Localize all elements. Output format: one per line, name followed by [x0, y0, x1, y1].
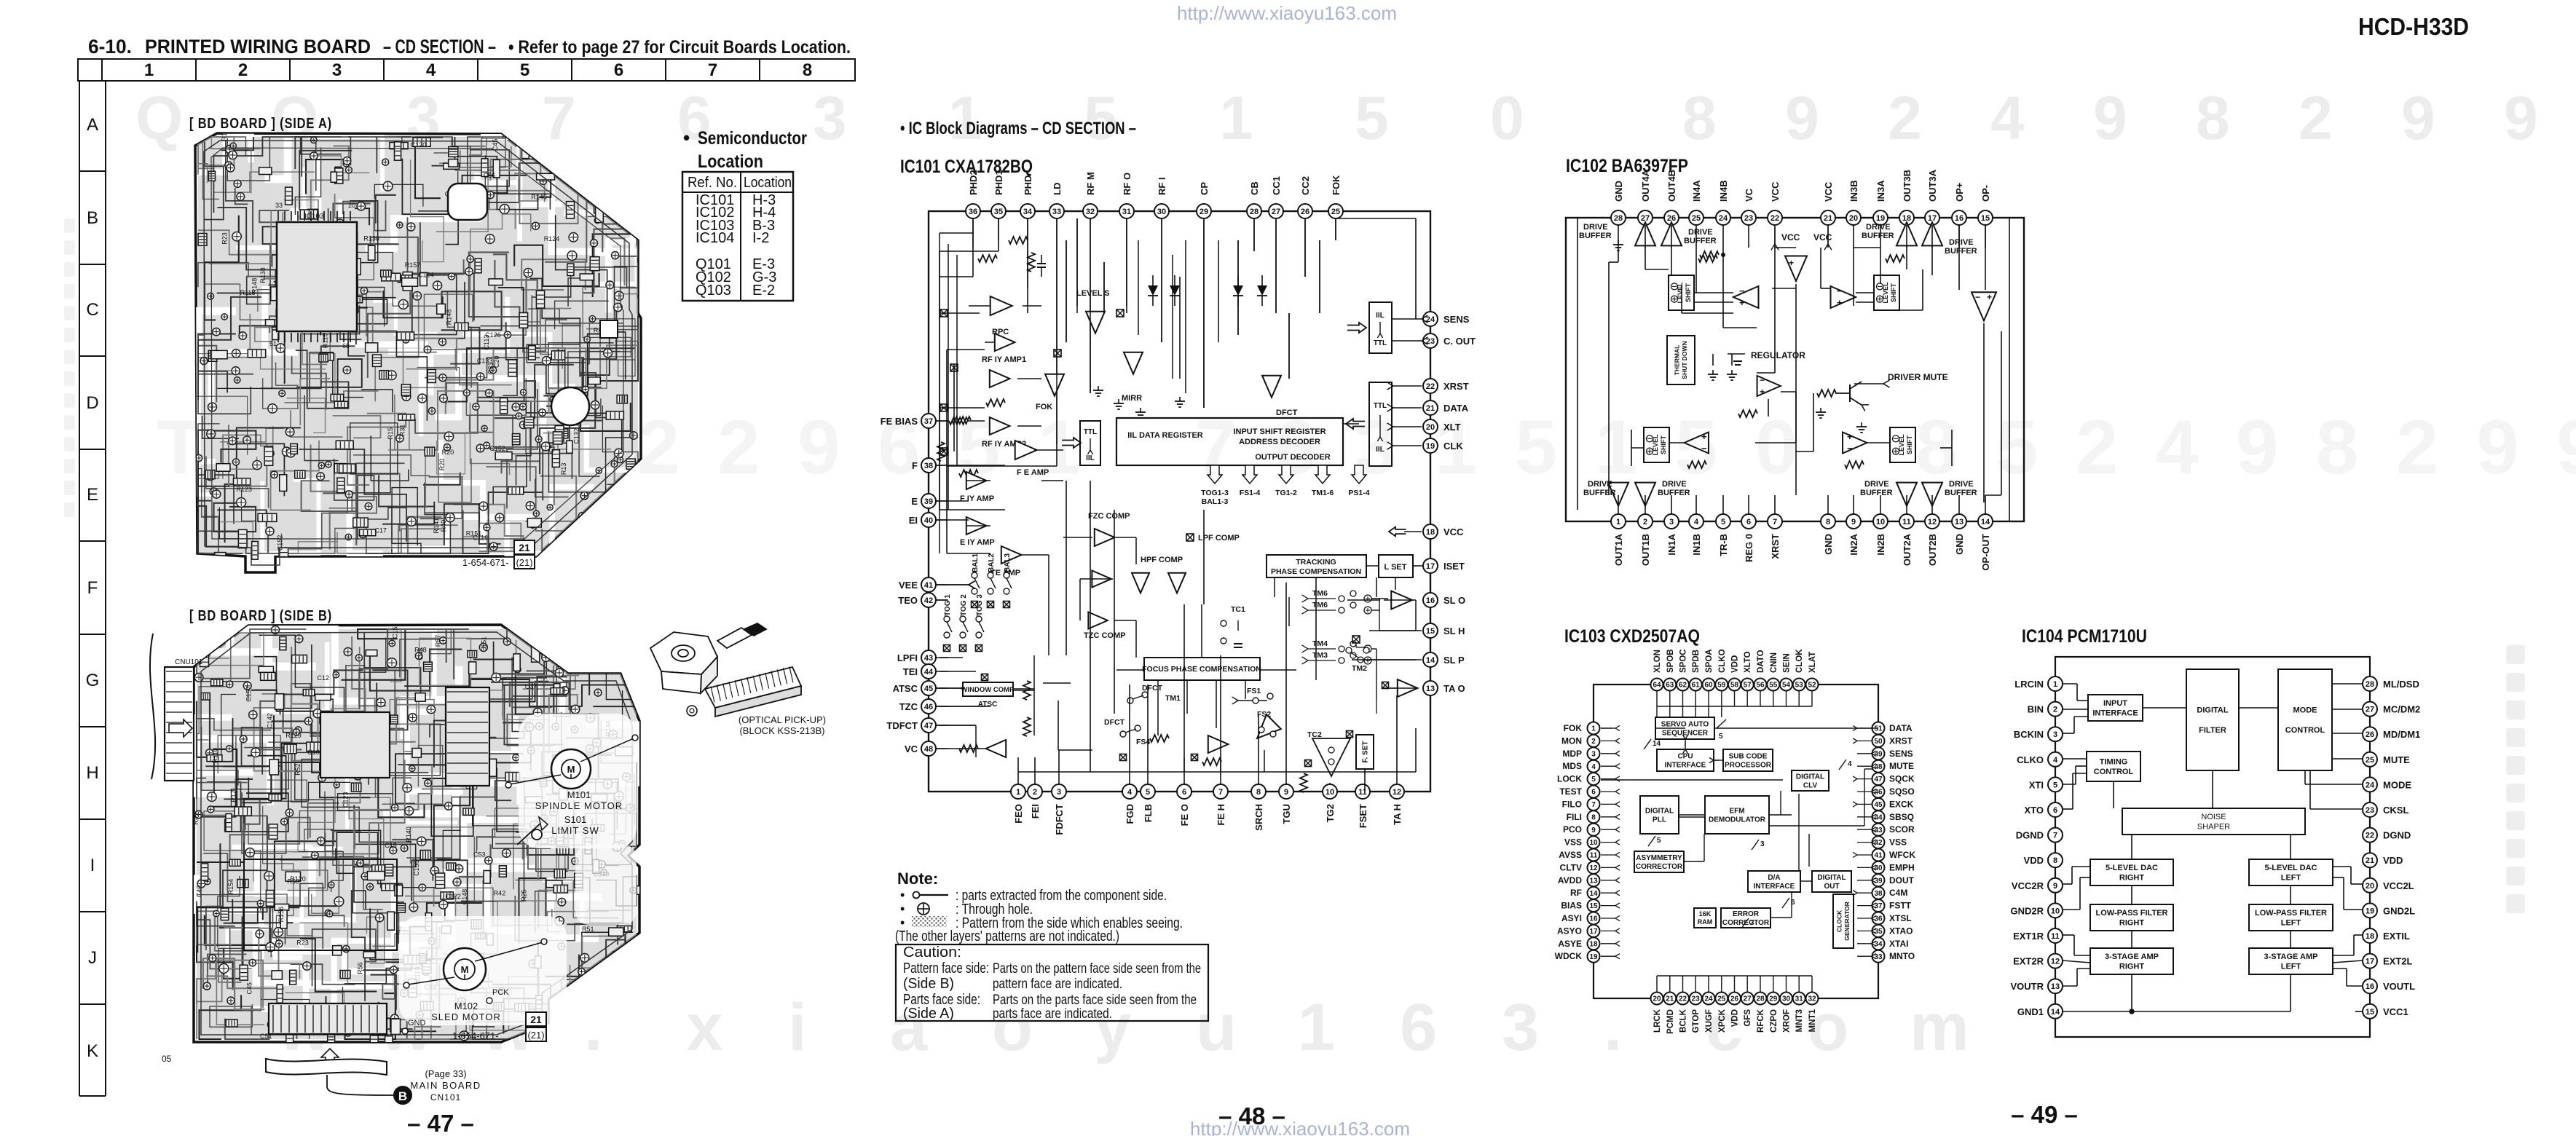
svg-text:C40: C40 [195, 885, 202, 898]
svg-text:11: 11 [1590, 852, 1598, 860]
svg-text:25: 25 [2366, 756, 2374, 765]
IC104 pin 3 (BCKIN) [2048, 727, 2063, 741]
svg-text:13: 13 [1426, 685, 1435, 693]
svg-text:C4M: C4M [1889, 888, 1907, 898]
IC102 pin28 ground [1618, 240, 1619, 245]
svg-text:2: 2 [1033, 788, 1037, 797]
IC101 TTL-IIL input box [1080, 421, 1100, 465]
svg-text:ASYE: ASYE [1558, 939, 1582, 949]
side A sheet ref box 21 [514, 540, 535, 554]
IC103 pin 45 (EXCK) [1872, 798, 1885, 810]
svg-text:19: 19 [1426, 442, 1435, 451]
svg-text:35: 35 [994, 208, 1003, 216]
svg-text:SERVO AUTO: SERVO AUTO [1661, 720, 1709, 728]
IC104 pin 23 (CKSL) [2363, 802, 2377, 817]
svg-text:6: 6 [1791, 899, 1795, 907]
svg-text:EXT2L: EXT2L [2383, 956, 2413, 967]
svg-text:FS1: FS1 [1247, 687, 1261, 695]
IC104 pin 15 (VCC1) [2363, 1004, 2377, 1019]
svg-text:R20: R20 [438, 459, 446, 471]
svg-text:ISET: ISET [1443, 561, 1465, 572]
IC101 xboxes top-left [940, 309, 948, 317]
IC101 caps top-left [1041, 255, 1042, 264]
svg-text:AVDD: AVDD [1558, 875, 1582, 885]
svg-text:26: 26 [1301, 208, 1309, 216]
IC103 pin 30 (XROF) [1780, 993, 1792, 1005]
svg-text:R40: R40 [440, 520, 447, 532]
svg-text:BUFFER: BUFFER [1579, 232, 1612, 240]
svg-text:23: 23 [1744, 214, 1753, 223]
svg-text:R17: R17 [230, 790, 237, 802]
IC103 clock generator box [1833, 894, 1854, 948]
IC103 digital out box [1812, 871, 1851, 892]
svg-text:3: 3 [1057, 788, 1061, 797]
svg-text:DRIVE: DRIVE [1866, 223, 1891, 232]
svg-text:FILO: FILO [1562, 799, 1582, 809]
svg-text:3: 3 [813, 84, 847, 152]
bottom up arrow [321, 1049, 339, 1070]
svg-text:u: u [1196, 990, 1237, 1065]
svg-text:R31: R31 [398, 425, 406, 437]
svg-text:R25: R25 [521, 889, 528, 902]
svg-text:R20: R20 [442, 449, 454, 456]
svg-text:21: 21 [530, 1014, 542, 1025]
svg-text:9: 9 [1785, 84, 1819, 152]
svg-text:(21): (21) [516, 557, 532, 568]
svg-text:17: 17 [1589, 928, 1598, 936]
svg-text:CLK: CLK [1443, 441, 1463, 451]
IC104 5-level dac left box [2249, 859, 2333, 885]
svg-text:INTERFACE: INTERFACE [1665, 762, 1706, 770]
svg-text:R23: R23 [221, 232, 228, 245]
svg-text:0: 0 [1755, 405, 1797, 490]
svg-text:XLTO: XLTO [1744, 651, 1752, 673]
IC102 pin 22 (VCC) [1768, 210, 1782, 225]
svg-text:TZC: TZC [899, 701, 918, 712]
svg-text:XROF: XROF [1783, 1009, 1792, 1033]
svg-text:VCC2R: VCC2R [2012, 880, 2044, 891]
svg-text:TEO: TEO [898, 595, 918, 606]
svg-text:3-STAGE AMP: 3-STAGE AMP [2105, 952, 2159, 961]
IC102 pin 20 (IN3B) [1846, 210, 1861, 225]
svg-text:21: 21 [2366, 856, 2374, 865]
svg-text:Pattern face side:: Pattern face side: [903, 961, 989, 977]
svg-text:LEVEL: LEVEL [1882, 282, 1889, 304]
svg-text:BUFFER: BUFFER [1945, 247, 1977, 256]
svg-text:+: + [1847, 431, 1853, 442]
svg-text:5: 5 [1657, 837, 1661, 845]
svg-text:5-LEVEL DAC: 5-LEVEL DAC [2106, 864, 2158, 872]
IC103 pin 57 (XLTO) [1741, 679, 1754, 691]
svg-text:31: 31 [1795, 995, 1804, 1003]
IC103 pin 16 (ASYI) [1588, 912, 1600, 925]
IC102 pin 5 (TR-B) [1716, 514, 1730, 529]
svg-text:EXCK: EXCK [1889, 799, 1914, 809]
IC103 pin 41 (WFCK) [1872, 849, 1885, 861]
svg-text:R141: R141 [433, 518, 440, 534]
side B IC footprint lower [244, 859, 397, 950]
IC103 pin 25 (XPCK) [1715, 993, 1728, 1005]
svg-text:• IC Block Diagrams – CD SECTI: • IC Block Diagrams – CD SECTION – [900, 119, 1136, 138]
IC104 3-stage amp right box [2090, 948, 2173, 974]
svg-text:FOCUS PHASE COMPENSATION: FOCUS PHASE COMPENSATION [1142, 665, 1261, 674]
IC103 pin 46 (SQSO) [1872, 786, 1885, 798]
svg-text:2: 2 [1591, 738, 1596, 746]
svg-text:VCC: VCC [1781, 232, 1800, 242]
svg-text:9: 9 [1851, 518, 1856, 526]
IC103 pin 63 (SPOB) [1663, 679, 1676, 691]
optical pickup drawing (KSS-213B) [650, 623, 801, 717]
svg-text:FILTER: FILTER [2199, 726, 2226, 735]
svg-text:57: 57 [1744, 682, 1752, 690]
svg-text:2: 2 [637, 405, 680, 490]
svg-text:PS1-4: PS1-4 [1348, 489, 1369, 497]
svg-text:22: 22 [1679, 995, 1687, 1003]
IC104 5-level dac right box [2090, 859, 2173, 885]
svg-text:RAM: RAM [1698, 918, 1713, 926]
svg-text:TM4: TM4 [1312, 639, 1328, 648]
svg-text:SBSQ: SBSQ [1889, 812, 1914, 822]
IC101 TTL-IIL box (data bus) [1369, 382, 1392, 466]
svg-text:43: 43 [924, 654, 933, 663]
IC103 pin 28 (RFCK) [1754, 993, 1767, 1005]
svg-text:MODE: MODE [2293, 706, 2317, 715]
svg-text:(OPTICAL PICK-UP): (OPTICAL PICK-UP) [738, 714, 826, 725]
svg-text:i: i [788, 990, 807, 1065]
svg-text:MIRR: MIRR [1122, 394, 1142, 403]
svg-text:VOUTR: VOUTR [2011, 981, 2044, 992]
svg-text:F IY AMP: F IY AMP [960, 494, 994, 503]
svg-text:WINDOW COMP: WINDOW COMP [961, 686, 1015, 694]
svg-text:EXT1R: EXT1R [2013, 931, 2044, 942]
svg-text:Caution:: Caution: [903, 944, 961, 961]
IC103 pin 36 (XTSL) [1872, 912, 1885, 925]
svg-text:R42: R42 [494, 889, 506, 896]
svg-text:C126: C126 [485, 331, 501, 339]
svg-text:EXT2R: EXT2R [2013, 956, 2044, 967]
svg-text:22: 22 [1426, 382, 1435, 391]
IC103 pin 50 (XRST) [1872, 735, 1885, 747]
svg-text:38: 38 [924, 462, 933, 470]
svg-text:C17: C17 [374, 526, 387, 534]
svg-text:53: 53 [1795, 682, 1804, 690]
svg-text:GFS: GFS [1744, 1009, 1752, 1027]
IC101 WINDOW COMP box [963, 682, 1013, 696]
svg-text:SPINDLE MOTOR: SPINDLE MOTOR [535, 800, 623, 811]
IC103 pin 34 (XTAI) [1872, 937, 1885, 950]
IC102 pin 23 (VC) [1741, 210, 1756, 225]
svg-text:VCC1: VCC1 [2383, 1006, 2408, 1017]
IC103 pin 21 (PCMD) [1663, 993, 1676, 1005]
IC102 bottom drive buffers left [1608, 483, 1628, 506]
svg-text:DIGITAL: DIGITAL [1796, 773, 1824, 781]
svg-text:PHASE COMPENSATION: PHASE COMPENSATION [1271, 567, 1361, 576]
svg-text:DRIVE: DRIVE [1949, 238, 1974, 247]
svg-text:DGND: DGND [2016, 830, 2044, 841]
svg-text:LEVEL: LEVEL [1898, 434, 1905, 456]
svg-text:VDD: VDD [1731, 655, 1740, 673]
svg-text:24: 24 [2366, 781, 2375, 789]
svg-text:FLB: FLB [1143, 804, 1154, 822]
IC101 TAO driver [1398, 679, 1418, 697]
svg-text:40: 40 [924, 516, 933, 525]
IC101 DFCT comparator [1262, 376, 1281, 398]
IC104 outer box [2055, 657, 2370, 1037]
svg-text:21: 21 [1666, 995, 1674, 1003]
svg-text:41: 41 [924, 581, 933, 590]
left edge faint vertical watermark [64, 218, 75, 233]
svg-text:OUTPUT DECODER: OUTPUT DECODER [1255, 453, 1330, 462]
svg-text:LEFT: LEFT [2281, 919, 2301, 928]
svg-text:VDD: VDD [1731, 1009, 1740, 1027]
IC101 pin 30 (RF I) [1154, 204, 1169, 218]
IC101 RF IY AMP2 [990, 417, 1010, 435]
IC103 error corrector box [1721, 908, 1770, 928]
IC101 SLO driver [1391, 591, 1412, 610]
IC101 pin 25 (FOK) [1328, 204, 1343, 218]
semiconductor location table [682, 172, 793, 301]
svg-text:(Side A): (Side A) [903, 1006, 954, 1022]
IC103 pin 48 (MUTE) [1872, 760, 1885, 773]
svg-text:EFM: EFM [1729, 807, 1744, 815]
svg-text:41: 41 [1874, 852, 1883, 860]
svg-text:46: 46 [924, 703, 933, 711]
svg-text:62: 62 [1679, 682, 1687, 690]
svg-text:27: 27 [2366, 706, 2374, 714]
svg-text:13: 13 [1589, 877, 1598, 885]
svg-text:[ BD BOARD ] (SIDE B): [ BD BOARD ] (SIDE B) [189, 608, 332, 624]
svg-text:25: 25 [1717, 995, 1726, 1003]
svg-text:1: 1 [1298, 990, 1335, 1065]
svg-text:AVSS: AVSS [1559, 850, 1582, 860]
IC101 output decoder arrows [1208, 465, 1222, 484]
svg-text:OP+: OP+ [1954, 182, 1965, 202]
IC101 pin 46 (TZC) [921, 699, 936, 714]
IC104 pin 27 (MC/DM2) [2363, 702, 2377, 717]
svg-text:XLT: XLT [1443, 422, 1461, 433]
svg-text:IC101 CXA1782BQ: IC101 CXA1782BQ [900, 157, 1033, 177]
svg-text:25: 25 [1331, 208, 1340, 216]
svg-text:CONTROL: CONTROL [2094, 768, 2134, 776]
svg-text:R154: R154 [227, 879, 235, 895]
side B sheet ref box (21) [526, 1027, 546, 1041]
svg-text:TM1-6: TM1-6 [1312, 489, 1334, 497]
svg-text:OUT3B: OUT3B [1902, 170, 1913, 202]
svg-text:MDP: MDP [1562, 749, 1582, 759]
svg-text:VCC: VCC [1443, 526, 1464, 537]
IC101 grounds [1098, 386, 1099, 390]
svg-text:21: 21 [519, 542, 530, 553]
main board circle B [394, 1086, 411, 1104]
svg-text:SPOC: SPOC [1679, 649, 1688, 673]
IC101 pin 41 (VEE) [921, 577, 936, 592]
IC103 pin 10 (VSS) [1588, 836, 1600, 848]
side B left arrow [169, 719, 192, 737]
svg-text:6: 6 [1591, 789, 1596, 797]
svg-text:+: + [1760, 387, 1765, 397]
svg-text:R13: R13 [560, 463, 567, 476]
IC101 LPF COMP [1186, 534, 1194, 541]
svg-text:5: 5 [1355, 84, 1389, 152]
IC103 pin 64 (XLON) [1651, 679, 1663, 691]
svg-text:FEI: FEI [1030, 804, 1041, 819]
svg-text:5: 5 [1591, 776, 1596, 784]
svg-text:4: 4 [1127, 788, 1133, 797]
svg-text:FE O: FE O [1179, 804, 1190, 826]
svg-text:VCC: VCC [1823, 181, 1834, 202]
IC103 arrows left pins [1601, 727, 1615, 729]
svg-text:E: E [911, 496, 918, 507]
svg-text:9: 9 [1284, 788, 1288, 797]
svg-text:TA H: TA H [1392, 804, 1403, 825]
svg-text:OP-OUT: OP-OUT [1980, 534, 1991, 571]
IC103 internal wires [1601, 690, 1878, 992]
IC101 pin 16 (SL O) [1423, 593, 1438, 607]
svg-text:DFCT: DFCT [1142, 684, 1163, 693]
svg-text:ADDRESS DECODER: ADDRESS DECODER [1239, 438, 1320, 446]
svg-text:INPUT: INPUT [2103, 699, 2127, 708]
svg-text:EI: EI [909, 515, 918, 526]
svg-text:RF IY AMP1: RF IY AMP1 [982, 355, 1026, 364]
svg-text:LEFT: LEFT [2281, 874, 2301, 883]
IC101 amp mid [1208, 735, 1229, 753]
svg-text:ERROR: ERROR [1733, 910, 1760, 918]
svg-text:15: 15 [1589, 902, 1598, 910]
svg-text:47: 47 [924, 722, 933, 730]
IC101 FOCUS PHASE COMPENSATION box [1144, 658, 1260, 680]
svg-text:VSS: VSS [1564, 837, 1582, 848]
svg-text:C37: C37 [525, 683, 537, 690]
svg-text:WFCK: WFCK [1889, 850, 1915, 860]
svg-text:50: 50 [1874, 738, 1883, 746]
svg-text:R123: R123 [237, 486, 253, 493]
svg-text:•: • [683, 127, 690, 149]
svg-text:m: m [1910, 990, 1969, 1065]
IC103 pin 9 (PCO) [1588, 824, 1600, 836]
svg-text:1: 1 [2053, 680, 2057, 689]
svg-text:BUFFER: BUFFER [1684, 237, 1717, 245]
IC101 pin 47 (TDFCT) [921, 718, 936, 733]
svg-text:+: + [1789, 258, 1794, 268]
svg-text:RIGHT: RIGHT [2119, 919, 2145, 928]
IC102 top-right drive buffers [1896, 222, 1917, 245]
IC104 pin 7 (DGND) [2048, 828, 2063, 843]
svg-text:9: 9 [1591, 827, 1596, 835]
svg-text:C116: C116 [473, 535, 488, 542]
IC101 TZC COMP [1092, 571, 1111, 588]
svg-text:FOK: FOK [1331, 175, 1342, 195]
svg-text:9: 9 [2401, 84, 2435, 152]
svg-text:4: 4 [1848, 760, 1852, 768]
IC104 low-pass filter right box [2090, 904, 2173, 931]
IC104 pin 4 (CLKO) [2048, 752, 2063, 767]
svg-text:2: 2 [1888, 84, 1922, 152]
svg-text:CLV: CLV [1803, 782, 1818, 790]
svg-text:IC104 PCM1710U: IC104 PCM1710U [2022, 626, 2147, 647]
svg-text:1: 1 [1219, 84, 1253, 152]
svg-text:12: 12 [1393, 788, 1401, 797]
IC103 pin 12 (CLTV) [1588, 861, 1600, 874]
IC101 pin 3 (FDFCT) [1052, 784, 1066, 799]
IC103 pin 23 (GTOP) [1690, 993, 1702, 1005]
svg-text:CN101: CN101 [430, 1092, 461, 1103]
svg-text:5-LEVEL DAC: 5-LEVEL DAC [2265, 864, 2317, 872]
IC104 pin 1 (LRCIN) [2048, 677, 2063, 691]
svg-text:28: 28 [2366, 680, 2374, 689]
svg-text:64: 64 [1653, 682, 1661, 690]
svg-text:C10: C10 [307, 749, 320, 756]
IC101 pin 19 (CLK) [1423, 438, 1438, 453]
IC101 pin 39 (E) [921, 494, 936, 508]
svg-text:26: 26 [2366, 730, 2374, 739]
svg-text:BCKIN: BCKIN [2014, 729, 2044, 740]
svg-text:LIMIT SW: LIMIT SW [551, 825, 599, 836]
svg-text:28: 28 [1756, 995, 1765, 1003]
svg-text:B: B [87, 208, 98, 228]
IC101 pin 11 (FSET) [1355, 784, 1370, 799]
svg-text:1-654-671-: 1-654-671- [462, 557, 509, 568]
svg-text:14: 14 [2051, 1008, 2060, 1017]
IC104 mode control box [2278, 669, 2332, 770]
IC101 F E AMP [1015, 441, 1037, 459]
svg-text:CZPO: CZPO [1770, 1009, 1779, 1033]
S101 limit switch [517, 821, 543, 845]
IC101 pin 4 (FGD) [1122, 784, 1137, 799]
svg-text:1: 1 [1016, 788, 1020, 797]
svg-text:RIGHT: RIGHT [2119, 874, 2145, 883]
svg-text:VCC: VCC [1770, 181, 1781, 202]
svg-text:IC103: IC103 [304, 213, 324, 221]
IC101 pin 32 (RF M) [1083, 204, 1098, 218]
svg-text:PHD: PHD [1023, 175, 1033, 195]
IC102 pin 13 (GND) [1952, 514, 1966, 529]
svg-text:C157: C157 [245, 686, 253, 702]
svg-text:XTO: XTO [2025, 805, 2044, 816]
svg-text:PHD1: PHD1 [993, 170, 1004, 195]
spindle motor M101 [551, 749, 591, 789]
IC103 pin 54 (SEIN) [1780, 679, 1792, 691]
svg-text:1: 1 [144, 60, 154, 80]
svg-text:1-654-671-: 1-654-671- [452, 1030, 499, 1041]
svg-text:SEIN: SEIN [1783, 653, 1792, 673]
svg-text:2: 2 [2396, 405, 2438, 490]
svg-text:6-10.: 6-10. [88, 36, 132, 58]
IC104 timing control box [2087, 752, 2140, 781]
svg-text:R51: R51 [582, 926, 594, 933]
svg-text:28: 28 [1250, 208, 1259, 216]
svg-text:MNT3: MNT3 [1795, 1009, 1804, 1032]
svg-text:TM1: TM1 [1165, 694, 1181, 703]
IC103 cpu interface box [1657, 749, 1714, 771]
svg-text:TTL: TTL [1374, 402, 1387, 410]
svg-text:R148: R148 [446, 309, 453, 326]
svg-text:LEFT: LEFT [2281, 963, 2301, 971]
svg-text:C43: C43 [417, 648, 425, 660]
svg-text:C20: C20 [493, 355, 500, 368]
svg-text:58: 58 [1730, 682, 1739, 690]
svg-text:R118: R118 [240, 289, 256, 296]
svg-text:−: − [1837, 285, 1843, 296]
IC101 E IY AMP [966, 517, 987, 535]
svg-text:Location: Location [744, 175, 792, 191]
svg-text:TTL: TTL [1374, 339, 1387, 347]
svg-text:LOW-PASS FILTER: LOW-PASS FILTER [2096, 909, 2168, 918]
svg-text:TC1: TC1 [1231, 605, 1245, 614]
svg-text:(The other layers' patterns ar: (The other layers' patterns are not indi… [895, 928, 1119, 944]
svg-text:32: 32 [1086, 208, 1095, 216]
svg-text:2: 2 [2053, 706, 2057, 714]
IC101 pin 14 (SL P) [1423, 652, 1438, 667]
